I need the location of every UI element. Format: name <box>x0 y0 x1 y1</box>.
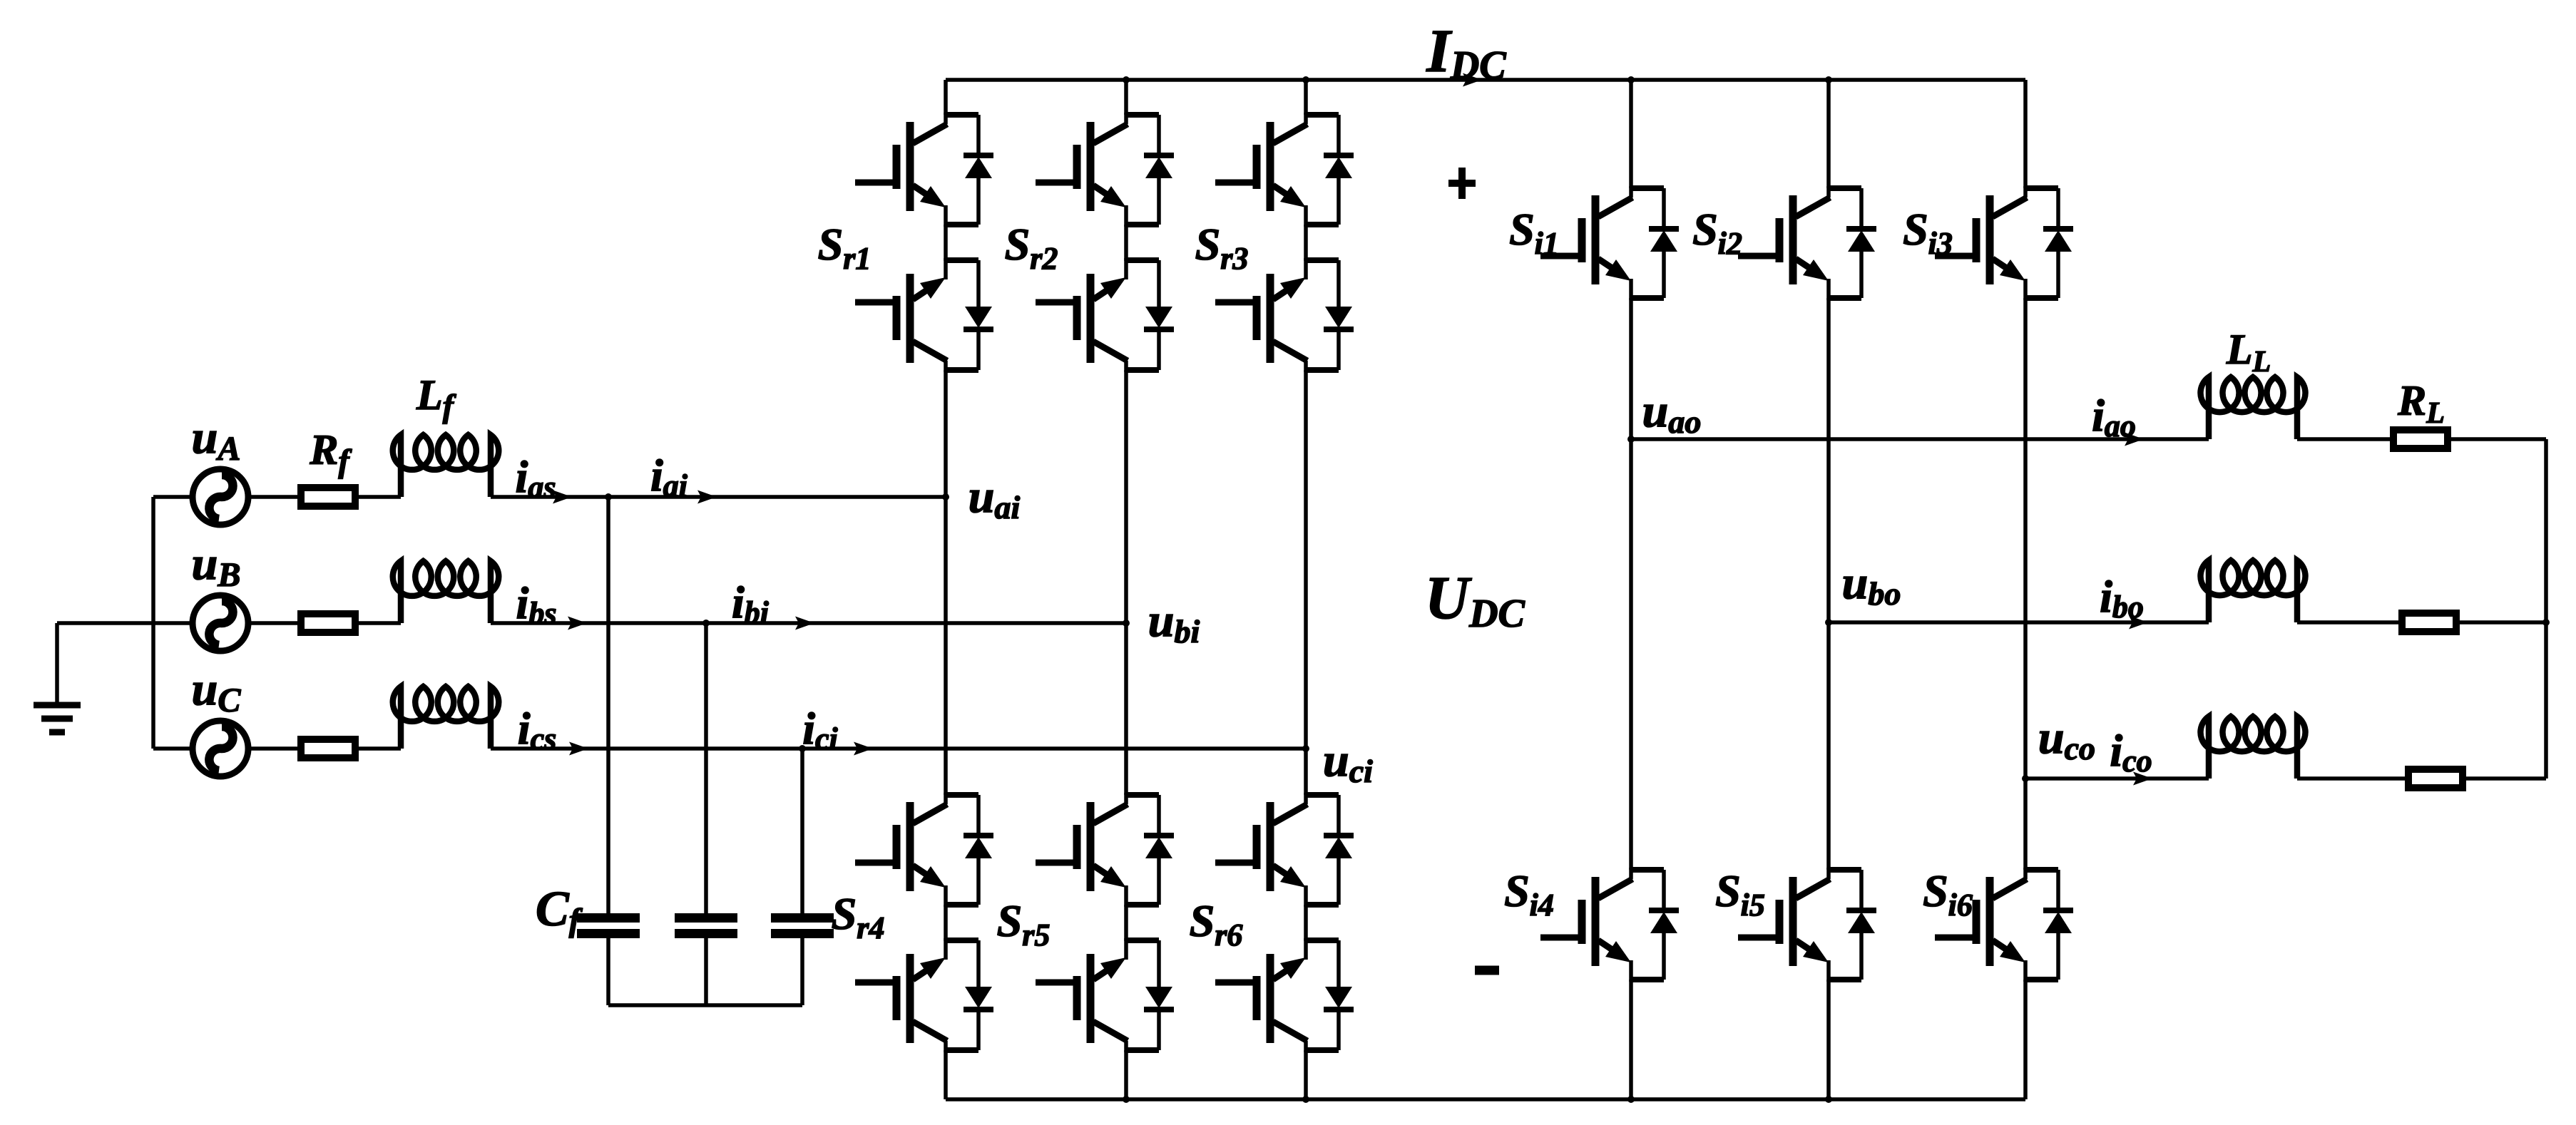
junction top rail leg i2 <box>1825 76 1832 83</box>
wire Rf to Lf phase B <box>355 621 401 625</box>
wire leg r1/r4 bottom <box>944 1050 948 1099</box>
switch Sr4 lower IGBT+diode Q4b <box>855 938 993 1052</box>
junction phase C cap tap <box>799 745 806 752</box>
wire leg r3/r6 mid upper switch <box>1304 225 1308 261</box>
wire output phase b <box>1829 620 2209 625</box>
switch Sr3 upper IGBT+diode Q3a <box>1215 113 1354 227</box>
wire output phase c <box>2025 776 2209 781</box>
junction phase B cap tap <box>702 620 710 627</box>
arrow i_ai <box>697 490 717 504</box>
ground symbol <box>34 705 81 732</box>
switch Si2 IGBT+diode <box>1738 186 1876 300</box>
switch Sr5 lower IGBT+diode Q5b <box>1036 938 1174 1052</box>
switch Si6 IGBT+diode <box>1935 868 2073 982</box>
wire inverter leg i2/i5 bottom <box>1826 980 1831 1099</box>
wire inverter leg i1/i4 center <box>1629 298 1633 870</box>
wire inverter leg i3/i6 top <box>2023 80 2028 188</box>
label minus polarity <box>1475 966 1499 975</box>
junction top rail leg r3 <box>1302 76 1309 83</box>
junction load bus phase b <box>2542 619 2550 626</box>
resistor RL phase a <box>2393 430 2448 448</box>
wire RL to load bus phase a <box>2448 437 2546 441</box>
arrow i_bi <box>795 617 814 630</box>
wire leg r2/r5 center <box>1124 370 1128 795</box>
ac source uB <box>193 595 248 651</box>
wire leg r1/r4 mid lower switch <box>944 905 948 941</box>
wire bus to source uA <box>153 495 192 499</box>
capacitor Cf phase B <box>675 623 737 1005</box>
capacitor Cf phase A <box>577 497 640 1005</box>
wire uB to Rf <box>248 621 301 625</box>
wire uA to Rf <box>248 495 301 499</box>
wire leg r3/r6 center <box>1304 370 1308 795</box>
junction node ubi <box>1123 620 1130 627</box>
wire output phase a <box>1631 437 2209 441</box>
label plus polarity <box>1448 168 1476 199</box>
wire inverter leg i3/i6 bottom <box>2023 980 2028 1099</box>
switch Sr2 lower IGBT+diode Q2b <box>1036 258 1174 372</box>
ac source uC <box>193 721 248 776</box>
inductor LL phase a <box>2201 377 2306 439</box>
wire inverter leg i1/i4 top <box>1629 80 1633 188</box>
switch Si4 IGBT+diode <box>1540 868 1679 982</box>
wire inverter leg i2/i5 top <box>1826 80 1831 188</box>
wire leg r3/r6 bottom <box>1304 1050 1308 1099</box>
wire ground to source uB <box>57 621 192 625</box>
switch Sr2 upper IGBT+diode Q2a <box>1036 113 1174 227</box>
wire uC to Rf <box>248 746 301 751</box>
wire RL to load bus phase b <box>2456 620 2546 625</box>
junction node uao <box>1627 436 1635 443</box>
arrow i_as <box>553 490 572 504</box>
junction bottom rail leg r5 <box>1123 1096 1130 1103</box>
junction bottom rail leg i4 <box>1627 1096 1635 1103</box>
ac source uA <box>193 469 248 525</box>
switch Sr1 upper IGBT+diode Q1a <box>855 113 993 227</box>
junction bottom rail leg i5 <box>1825 1096 1832 1103</box>
wire inverter leg i2/i5 center <box>1826 298 1831 870</box>
arrow I_DC direction <box>1463 73 1482 87</box>
resistor Rf phase A <box>301 488 355 506</box>
wire leg r2/r5 mid upper switch <box>1124 225 1128 261</box>
arrow i_co <box>2133 772 2152 786</box>
wire LL to RL phase c <box>2297 776 2408 781</box>
wire LL to RL phase a <box>2297 437 2393 441</box>
inductor Lf phase B <box>393 561 499 623</box>
switch Sr5 upper IGBT+diode Q5a <box>1036 793 1174 907</box>
switch Si3 IGBT+diode <box>1935 186 2073 300</box>
wire bus to source uC <box>153 746 192 751</box>
arrow i_ci <box>854 742 873 756</box>
wire leg r3/r6 mid lower switch <box>1304 905 1308 941</box>
wire LL to RL phase b <box>2297 620 2402 625</box>
wire Rf to Lf phase C <box>355 746 401 751</box>
wire leg r1/r4 mid upper switch <box>944 225 948 261</box>
wire capacitor common bus <box>608 1003 802 1007</box>
inductor Lf phase A <box>393 435 499 497</box>
switch Sr4 upper IGBT+diode Q4a <box>855 793 993 907</box>
junction node ubo <box>1825 619 1832 626</box>
resistor RL phase b <box>2402 613 2456 632</box>
junction top rail leg i1 <box>1627 76 1635 83</box>
wire Rf to Lf phase A <box>355 495 401 499</box>
inductor Lf phase C <box>393 687 499 749</box>
wire source neutral bus <box>151 497 155 749</box>
wire ground stub <box>55 623 59 702</box>
wire inverter leg i3/i6 center <box>2023 298 2028 870</box>
switch Sr3 lower IGBT+diode Q3b <box>1215 258 1354 372</box>
wire phase B to node ubi <box>491 621 1126 625</box>
wire leg r3/r6 top <box>1304 80 1308 115</box>
junction node uai <box>942 493 949 500</box>
switch Sr1 lower IGBT+diode Q1b <box>855 258 993 372</box>
wire load neutral bus <box>2544 439 2548 779</box>
switch Si1 IGBT+diode <box>1540 186 1679 300</box>
switch Si5 IGBT+diode <box>1738 868 1876 982</box>
junction bottom rail leg r6 <box>1302 1096 1309 1103</box>
wire leg r1/r4 top <box>944 80 948 115</box>
wire phase C to node uci <box>491 746 1306 751</box>
switch Sr6 lower IGBT+diode Q6b <box>1215 938 1354 1052</box>
resistor RL phase c <box>2408 769 2463 788</box>
wire inverter leg i1/i4 bottom <box>1629 980 1633 1099</box>
junction phase A cap tap <box>605 493 612 500</box>
wire leg r2/r5 bottom <box>1124 1050 1128 1099</box>
resistor Rf phase C <box>301 739 355 758</box>
switch Sr6 upper IGBT+diode Q6a <box>1215 793 1354 907</box>
arrow i_ao <box>2125 433 2144 446</box>
wire top DC rail <box>946 78 2025 82</box>
junction top rail leg r2 <box>1123 76 1130 83</box>
wire bottom DC rail <box>946 1097 2025 1101</box>
resistor Rf phase B <box>301 614 355 632</box>
arrow i_cs <box>569 742 588 756</box>
junction node uci <box>1302 745 1309 752</box>
inductor LL phase b <box>2201 560 2306 622</box>
capacitor Cf phase C <box>771 749 834 1005</box>
wire phase A to node uai <box>491 495 946 499</box>
inductor LL phase c <box>2201 716 2306 779</box>
arrow i_bs <box>568 617 587 630</box>
arrow i_bo <box>2129 616 2148 630</box>
wire leg r2/r5 top <box>1124 80 1128 115</box>
junction node uco <box>2022 775 2029 782</box>
wire leg r2/r5 mid lower switch <box>1124 905 1128 941</box>
wire RL to load bus phase c <box>2463 776 2546 781</box>
wire leg r1/r4 center <box>944 370 948 795</box>
